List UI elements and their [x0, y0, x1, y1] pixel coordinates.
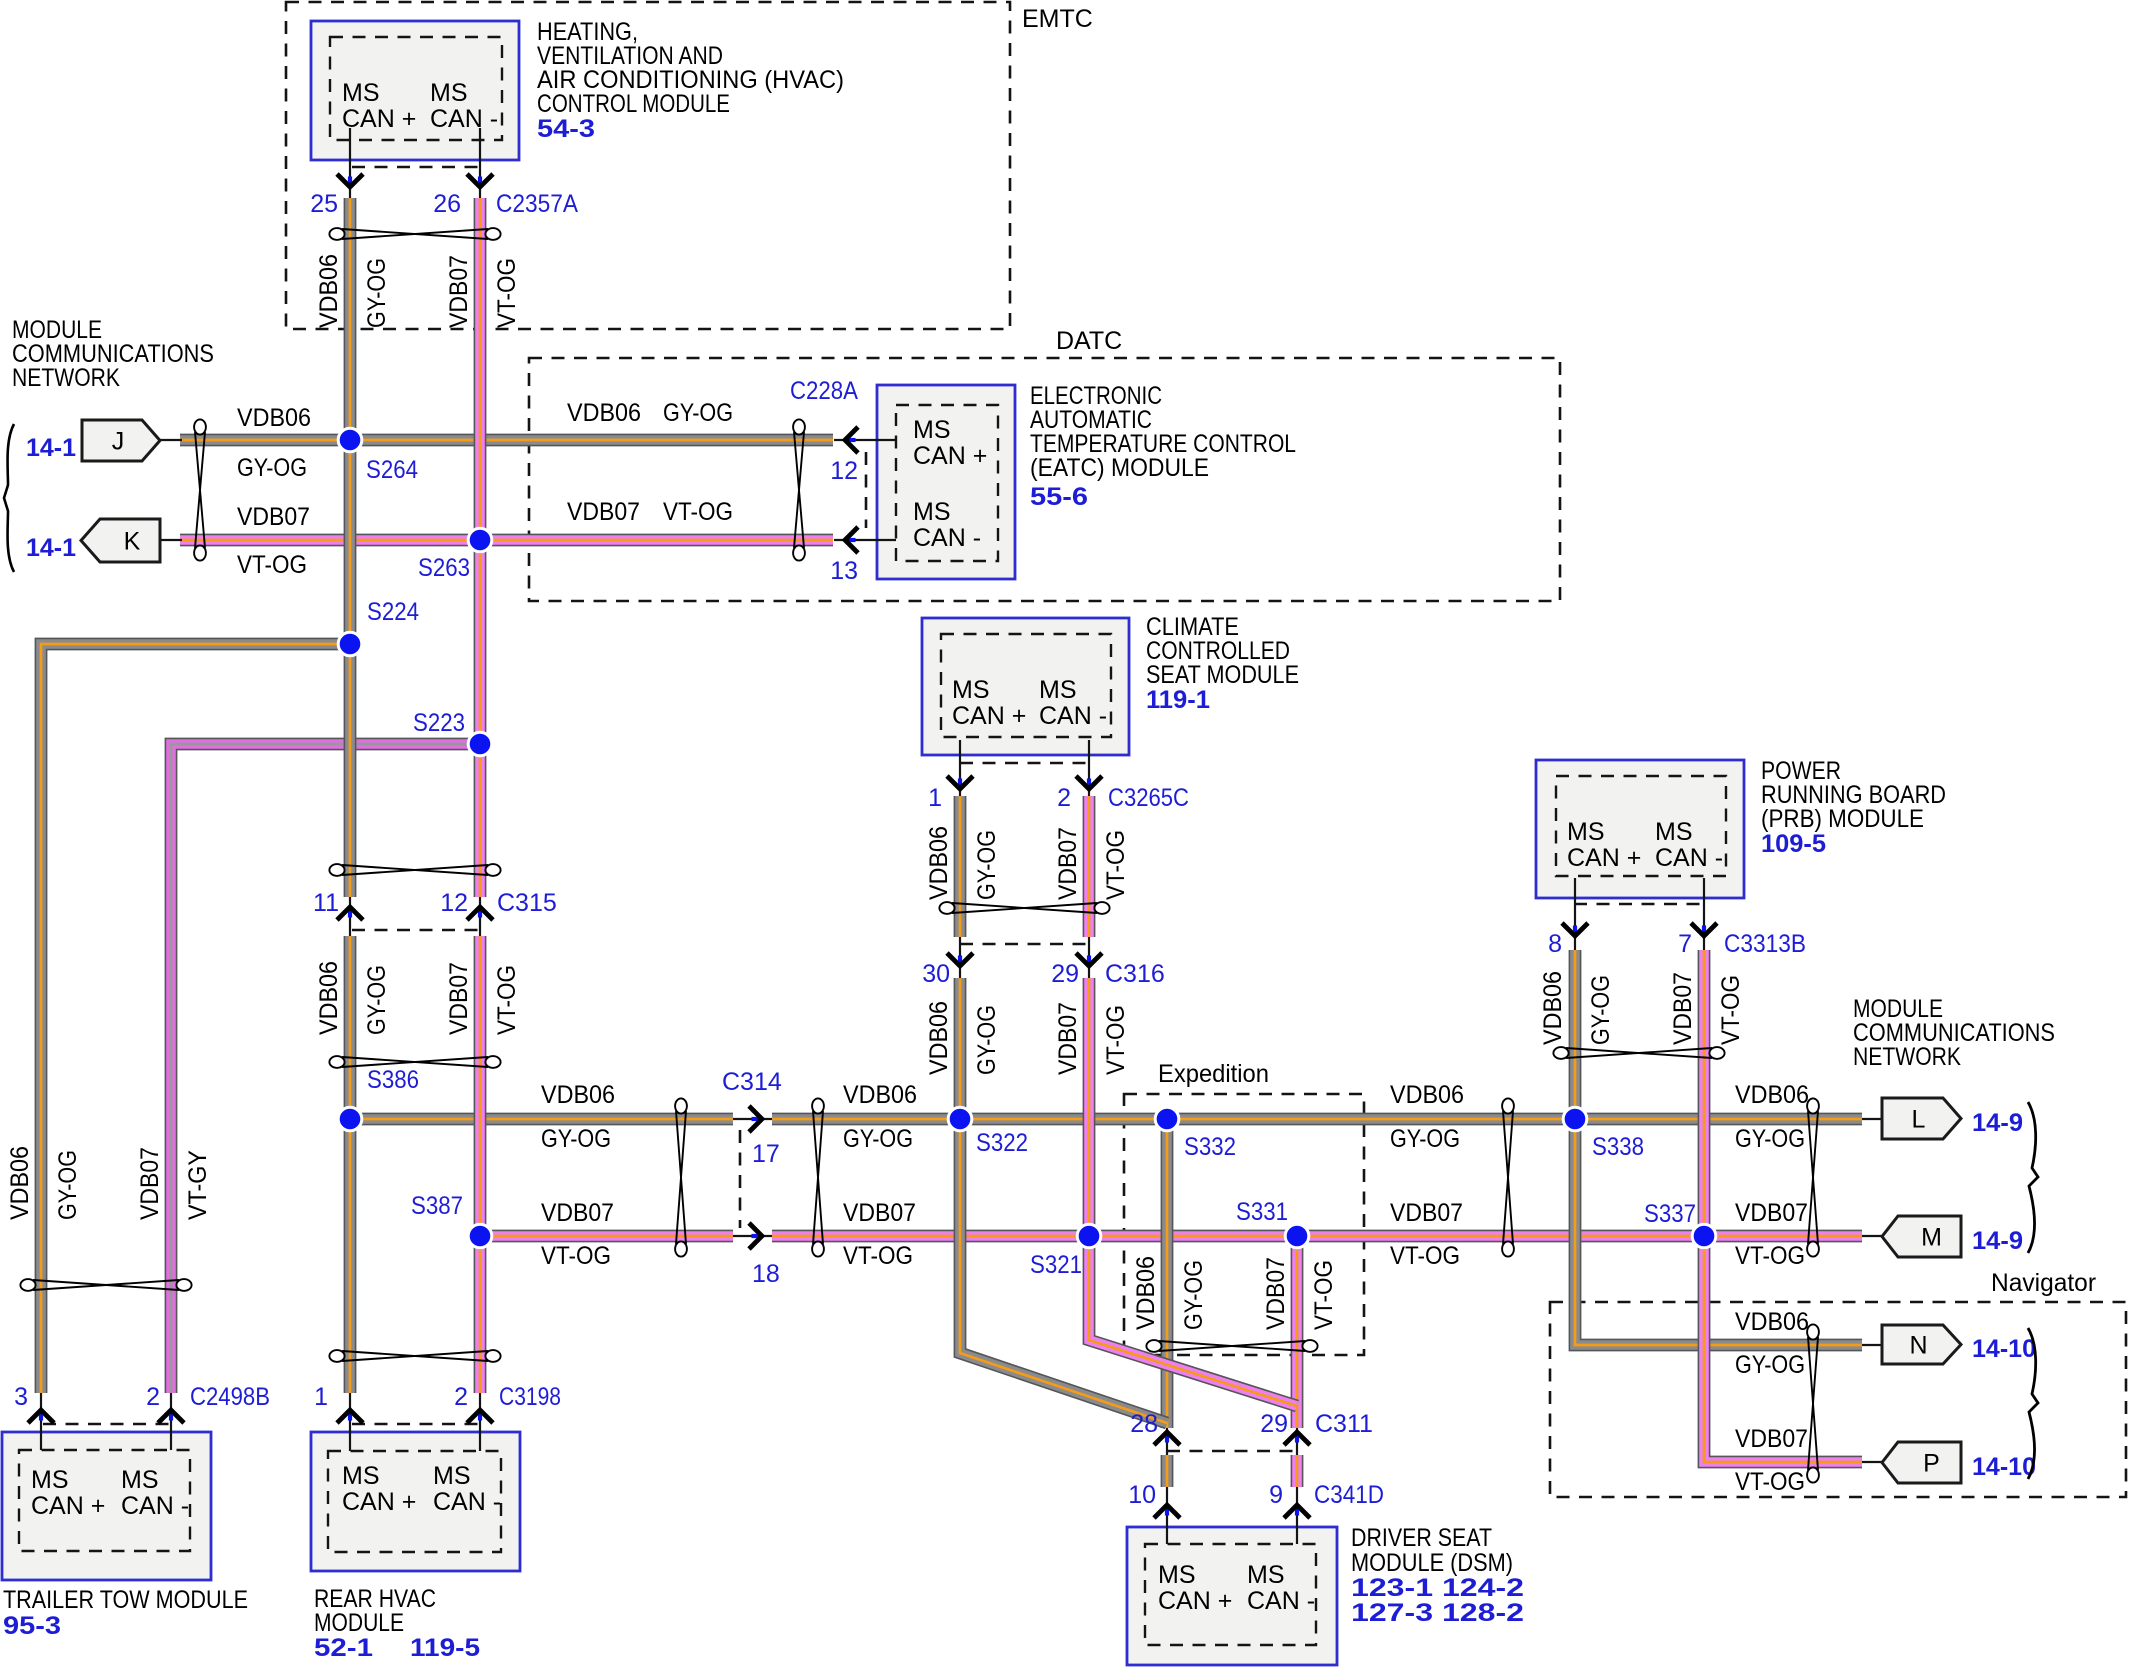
connector C3313B pin 7 — [1703, 878, 1705, 950]
svg-text:VDB06: VDB06 — [1132, 1256, 1160, 1330]
svg-text:P: P — [1923, 1450, 1940, 1478]
svg-text:VDB07: VDB07 — [541, 1199, 614, 1227]
svg-text:VDB07: VDB07 — [1262, 1257, 1290, 1330]
connector C2357A dashed line — [352, 166, 480, 169]
svg-text:CAN -: CAN - — [1039, 702, 1107, 730]
svg-text:VT-OG: VT-OG — [1735, 1468, 1805, 1496]
svg-text:29: 29 — [1051, 960, 1079, 988]
brace left 14-1 group — [4, 424, 14, 572]
svg-text:K: K — [124, 528, 141, 556]
svg-text:S338: S338 — [1592, 1133, 1644, 1161]
svg-text:25: 25 — [310, 190, 338, 218]
svg-text:CAN -: CAN - — [433, 1488, 501, 1516]
svg-text:12: 12 — [440, 889, 468, 917]
wire VDB06 GY-OG climate seat pin 1 to C316 pin 30 — [954, 796, 967, 937]
connector C316 pin 30 — [959, 937, 961, 978]
connector C228A dashed line — [865, 452, 868, 528]
svg-text:VDB07: VDB07 — [1735, 1425, 1808, 1453]
connector C316 pin 29 — [1088, 937, 1090, 978]
svg-text:MS: MS — [342, 1462, 380, 1490]
wire VDB07 VT-OG bus C314 to M — [772, 1230, 1862, 1243]
svg-text:GY-OG: GY-OG — [1180, 1260, 1208, 1330]
splice S337 — [1692, 1224, 1716, 1248]
svg-text:14-10: 14-10 — [1972, 1335, 2036, 1363]
svg-text:NETWORK: NETWORK — [12, 364, 120, 392]
twisted pair in Expedition box — [1146, 1340, 1317, 1352]
module box: HVAC control module — [311, 21, 519, 160]
svg-text:14-1: 14-1 — [26, 434, 76, 462]
svg-text:S224: S224 — [367, 598, 419, 626]
svg-text:VDB07: VDB07 — [1054, 1002, 1082, 1075]
svg-text:GY-OG: GY-OG — [363, 258, 391, 328]
svg-text:CAN -: CAN - — [430, 105, 498, 133]
wire VDB07 VT-GY S223 to trailer tow pin 2 — [171, 744, 480, 1393]
label module communications network (right) — [1853, 995, 2055, 1071]
splice S386 — [338, 1107, 362, 1131]
connector C311 pin 29 — [1296, 1428, 1298, 1455]
svg-text:CAN -: CAN - — [1247, 1587, 1315, 1615]
svg-text:C315: C315 — [497, 889, 557, 917]
svg-text:GY-OG: GY-OG — [54, 1150, 82, 1220]
connector C341D pin 9 — [1296, 1487, 1298, 1544]
svg-text:VT-OG: VT-OG — [237, 551, 307, 579]
svg-text:VT-OG: VT-OG — [663, 498, 733, 526]
svg-text:VDB06: VDB06 — [925, 826, 953, 900]
svg-text:11: 11 — [313, 889, 339, 917]
svg-text:VDB06: VDB06 — [1735, 1081, 1809, 1109]
off-page connector L to 14-9 — [1862, 1118, 1884, 1120]
module box: Trailer tow module — [2, 1432, 211, 1580]
connector C315 dashed line — [352, 929, 480, 932]
twisted pair on buses left of S338 — [1502, 1098, 1514, 1256]
label driver seat module caption — [1351, 1524, 1524, 1627]
svg-text:MS: MS — [1247, 1561, 1285, 1589]
twisted pair above C315 — [329, 864, 500, 876]
module box: Rear HVAC module — [311, 1432, 520, 1571]
svg-text:VT-OG: VT-OG — [1390, 1242, 1460, 1270]
svg-text:127-3 128-2: 127-3 128-2 — [1351, 1599, 1524, 1627]
svg-text:2: 2 — [146, 1383, 160, 1411]
wire VDB07 VT-OG C316 to S321 — [1083, 978, 1096, 1236]
wire VDB06 GY-OG bus C314 to L — [772, 1113, 1862, 1126]
svg-text:119-5: 119-5 — [410, 1634, 480, 1662]
svg-text:VT-GY: VT-GY — [184, 1150, 212, 1220]
svg-text:S387: S387 — [411, 1192, 463, 1220]
svg-text:VT-OG: VT-OG — [1310, 1260, 1338, 1330]
connector C3313B pin 8 — [1574, 878, 1576, 950]
svg-text:CAN -: CAN - — [913, 524, 981, 552]
splice S338 — [1563, 1107, 1587, 1131]
svg-text:SEAT MODULE: SEAT MODULE — [1146, 661, 1299, 689]
connector C2357A pin 26 — [479, 128, 481, 198]
svg-text:12: 12 — [830, 457, 858, 485]
svg-text:GY-OG: GY-OG — [973, 830, 1001, 900]
svg-text:7: 7 — [1678, 930, 1692, 958]
svg-text:17: 17 — [752, 1140, 780, 1168]
dashed group box: DATC — [529, 358, 1560, 601]
splice S331 — [1285, 1224, 1309, 1248]
svg-text:CAN +: CAN + — [31, 1492, 105, 1520]
svg-text:GY-OG: GY-OG — [973, 1005, 1001, 1075]
connector C314 pin 17 — [733, 1118, 772, 1120]
svg-text:VDB07: VDB07 — [237, 503, 310, 531]
connector C314 pin 18 — [733, 1235, 772, 1237]
connector C3198 pin 2 — [479, 1393, 481, 1451]
connector C315 pin 12 — [479, 897, 481, 936]
svg-text:GY-OG: GY-OG — [237, 454, 307, 482]
twisted pair above rear HVAC module — [329, 1350, 500, 1362]
svg-text:VT-OG: VT-OG — [1102, 830, 1130, 900]
splice S223 — [468, 732, 492, 756]
svg-text:J: J — [112, 428, 125, 456]
twisted pair above trailer tow module — [20, 1279, 191, 1291]
svg-text:(EATC) MODULE: (EATC) MODULE — [1030, 454, 1209, 482]
svg-text:VDB07: VDB07 — [567, 498, 640, 526]
svg-text:CAN +: CAN + — [342, 105, 416, 133]
svg-text:GY-OG: GY-OG — [1390, 1125, 1460, 1153]
svg-text:MS: MS — [913, 498, 951, 526]
twisted pair at EATC module — [793, 419, 805, 560]
off-page connector J to 14-1 — [160, 439, 182, 441]
svg-text:8: 8 — [1548, 930, 1562, 958]
module box: Driver seat module — [1127, 1527, 1337, 1665]
splice S264 — [338, 428, 362, 452]
svg-text:EMTC: EMTC — [1022, 5, 1093, 33]
connector C3198 dashed line — [352, 1423, 482, 1426]
svg-text:3: 3 — [14, 1383, 28, 1411]
svg-text:MS: MS — [1655, 818, 1693, 846]
wire VDB07 VT-OG bus S387 to C314 — [480, 1230, 733, 1243]
svg-text:95-3: 95-3 — [3, 1612, 61, 1640]
connector C2498B pin 3 — [40, 1393, 42, 1450]
wire VDB06 GY-OG S322 diagonal to C311 pin 28 — [960, 1119, 1167, 1423]
svg-text:VDB07: VDB07 — [1390, 1199, 1463, 1227]
svg-text:MS: MS — [952, 676, 990, 704]
connector C228A pin 12 — [834, 439, 896, 441]
svg-text:1: 1 — [314, 1383, 328, 1411]
svg-text:14-9: 14-9 — [1972, 1227, 2023, 1255]
wire VDB07 VT-OG PRB pin 7 to S337 — [1698, 950, 1711, 1236]
label HVAC control module caption — [537, 18, 844, 143]
wire VDB06 GY-OG stub C311 to C341D — [1161, 1455, 1174, 1487]
twisted pair below HVAC module — [329, 228, 500, 240]
twisted pair below C315 — [329, 1056, 500, 1068]
splice S332 — [1155, 1107, 1179, 1131]
wire VDB06 GY-OG HVAC pin 25 down to C315 pin 11 — [344, 198, 357, 897]
svg-text:S331: S331 — [1236, 1198, 1288, 1226]
svg-text:VDB07: VDB07 — [843, 1199, 916, 1227]
label module communications network (left) — [12, 316, 214, 392]
svg-text:Navigator: Navigator — [1991, 1269, 2096, 1297]
svg-text:VDB06: VDB06 — [1735, 1308, 1809, 1336]
svg-text:10: 10 — [1128, 1481, 1156, 1509]
dashed group box: Navigator — [1550, 1302, 2126, 1497]
svg-text:GY-OG: GY-OG — [1735, 1351, 1805, 1379]
svg-text:MS: MS — [1158, 1561, 1196, 1589]
svg-text:C316: C316 — [1105, 960, 1165, 988]
svg-text:VDB06: VDB06 — [237, 404, 311, 432]
svg-text:28: 28 — [1130, 1410, 1158, 1438]
svg-text:VT-OG: VT-OG — [493, 965, 521, 1035]
twisted pair before L/M connectors — [1807, 1098, 1819, 1256]
connector C314 dashed line — [739, 1130, 742, 1228]
wire VDB06 GY-OG S338 to N — [1575, 1119, 1862, 1345]
svg-text:29: 29 — [1260, 1410, 1288, 1438]
svg-text:CAN +: CAN + — [1567, 844, 1641, 872]
svg-text:VT-OG: VT-OG — [1102, 1005, 1130, 1075]
wire VDB07 VT-OG S331 to C311 pin 29 — [1291, 1236, 1304, 1428]
svg-text:VDB07: VDB07 — [1669, 972, 1697, 1045]
svg-text:C3198: C3198 — [499, 1383, 561, 1411]
off-page connector K to 14-1 — [160, 539, 182, 541]
svg-text:MS: MS — [121, 1466, 159, 1494]
svg-text:VDB06: VDB06 — [925, 1001, 953, 1075]
svg-text:MS: MS — [1567, 818, 1605, 846]
svg-text:C314: C314 — [722, 1068, 782, 1096]
svg-text:123-1 124-2: 123-1 124-2 — [1351, 1574, 1524, 1602]
svg-text:14-9: 14-9 — [1972, 1109, 2023, 1137]
label PRB module caption — [1761, 757, 1946, 858]
svg-text:MS: MS — [1039, 676, 1077, 704]
twisted pair on buses right of C314 — [812, 1098, 824, 1256]
svg-text:55-6: 55-6 — [1030, 483, 1088, 511]
wire VDB06 GY-OG C315 to rear HVAC pin 1 — [344, 936, 357, 1393]
off-page connector P to 14-10 — [1862, 1461, 1884, 1463]
connector C3265C pin 2 — [1088, 740, 1090, 796]
svg-text:C341D: C341D — [1314, 1481, 1384, 1509]
svg-text:S337: S337 — [1644, 1200, 1696, 1228]
svg-text:M: M — [1921, 1224, 1942, 1252]
svg-text:MODULE: MODULE — [314, 1609, 404, 1637]
svg-text:GY-OG: GY-OG — [663, 399, 733, 427]
svg-text:30: 30 — [922, 960, 950, 988]
svg-text:VDB07: VDB07 — [1054, 827, 1082, 900]
dashed group box: Expedition — [1124, 1094, 1364, 1355]
twisted pair on buses left of C314 — [675, 1098, 687, 1256]
svg-text:52-1: 52-1 — [314, 1634, 373, 1662]
dashed group box: EMTC — [286, 2, 1010, 329]
svg-text:L: L — [1912, 1106, 1926, 1134]
svg-text:S264: S264 — [366, 456, 418, 484]
connector C3313B dashed line — [1574, 903, 1704, 906]
svg-text:C2498B: C2498B — [190, 1383, 270, 1411]
svg-text:Expedition: Expedition — [1158, 1060, 1269, 1088]
svg-text:GY-OG: GY-OG — [541, 1125, 611, 1153]
svg-text:18: 18 — [752, 1260, 780, 1288]
svg-text:CAN -: CAN - — [1655, 844, 1723, 872]
svg-text:C3265C: C3265C — [1108, 784, 1189, 812]
svg-text:C3313B: C3313B — [1724, 930, 1806, 958]
wire VDB06 GY-OG from J to EATC pin 12 — [180, 434, 833, 447]
svg-text:TRAILER TOW MODULE: TRAILER TOW MODULE — [3, 1586, 248, 1614]
svg-text:DATC: DATC — [1056, 327, 1122, 355]
svg-text:VDB06: VDB06 — [1390, 1081, 1464, 1109]
brace right 14-10 group — [2028, 1328, 2038, 1479]
svg-text:CAN +: CAN + — [342, 1488, 416, 1516]
svg-text:NETWORK: NETWORK — [1853, 1043, 1961, 1071]
connector C311 dashed line — [1167, 1450, 1297, 1453]
connector C3265C dashed line — [960, 762, 1089, 765]
svg-text:VT-OG: VT-OG — [1717, 975, 1745, 1045]
svg-text:MS: MS — [913, 416, 951, 444]
connector C341D pin 10 — [1166, 1487, 1168, 1544]
svg-text:GY-OG: GY-OG — [1587, 975, 1615, 1045]
svg-text:26: 26 — [433, 190, 461, 218]
connector C2357A pin 25 — [349, 128, 351, 198]
svg-text:13: 13 — [830, 557, 858, 585]
svg-text:9: 9 — [1269, 1481, 1283, 1509]
svg-text:119-1: 119-1 — [1146, 686, 1210, 714]
off-page connector M to 14-9 — [1862, 1235, 1884, 1237]
svg-text:VDB06: VDB06 — [6, 1146, 34, 1220]
module box: PRB module — [1536, 760, 1744, 898]
wire VDB07 VT-OG from K to EATC pin 13 — [180, 534, 833, 547]
splice S322 — [948, 1107, 972, 1131]
svg-text:VDB06: VDB06 — [567, 399, 641, 427]
wire VDB07 VT-OG stub C311 to C341D — [1291, 1455, 1304, 1487]
wire VDB07 VT-OG S337 to P — [1704, 1236, 1862, 1462]
connector C228A pin 13 — [834, 539, 896, 541]
splice S263 — [468, 528, 492, 552]
svg-text:VT-OG: VT-OG — [493, 258, 521, 328]
svg-text:C311: C311 — [1315, 1410, 1373, 1438]
svg-text:S386: S386 — [367, 1066, 419, 1094]
svg-text:DRIVER SEAT: DRIVER SEAT — [1351, 1524, 1492, 1552]
svg-text:(PRB) MODULE: (PRB) MODULE — [1761, 805, 1924, 833]
svg-text:CONTROL MODULE: CONTROL MODULE — [537, 90, 730, 118]
svg-text:VDB07: VDB07 — [1735, 1199, 1808, 1227]
svg-text:N: N — [1909, 1332, 1927, 1360]
svg-text:CAN +: CAN + — [913, 442, 987, 470]
connector C311 pin 28 — [1166, 1428, 1168, 1455]
label EATC module caption — [1030, 382, 1296, 511]
svg-text:GY-OG: GY-OG — [843, 1125, 913, 1153]
svg-text:VDB06: VDB06 — [843, 1081, 917, 1109]
svg-text:MS: MS — [430, 79, 468, 107]
wire VDB07 VT-OG HVAC pin 26 down to C315 pin 12 — [474, 198, 487, 897]
svg-text:VDB06: VDB06 — [315, 254, 343, 328]
svg-text:S332: S332 — [1184, 1133, 1236, 1161]
splice S321 — [1077, 1224, 1101, 1248]
svg-text:MODULE (DSM): MODULE (DSM) — [1351, 1549, 1513, 1577]
splice S224 — [338, 632, 362, 656]
twisted pair below climate seat module — [939, 902, 1109, 914]
svg-text:109-5: 109-5 — [1761, 830, 1826, 858]
svg-text:2: 2 — [1057, 784, 1071, 812]
svg-text:C2357A: C2357A — [496, 190, 578, 218]
splice S387 — [468, 1224, 492, 1248]
connector C2498B pin 2 — [170, 1393, 172, 1450]
wire VDB06 GY-OG C316 to S322 — [954, 978, 967, 1119]
svg-text:VDB06: VDB06 — [1539, 971, 1567, 1045]
label climate controlled seat module caption — [1146, 613, 1299, 714]
label trailer tow module caption — [3, 1586, 248, 1640]
svg-text:VT-OG: VT-OG — [541, 1242, 611, 1270]
svg-text:C228A: C228A — [790, 377, 858, 405]
module box: EATC module — [877, 385, 1015, 579]
svg-text:CAN +: CAN + — [952, 702, 1026, 730]
wire VDB07 VT-OG climate seat pin 2 to C316 pin 29 — [1083, 796, 1096, 937]
svg-text:54-3: 54-3 — [537, 115, 595, 143]
svg-text:VT-OG: VT-OG — [843, 1242, 913, 1270]
svg-text:14-10: 14-10 — [1972, 1453, 2036, 1481]
connector C3265C pin 1 — [959, 740, 961, 796]
svg-text:MS: MS — [433, 1462, 471, 1490]
connector C3198 pin 1 — [349, 1393, 351, 1451]
wire VDB07 VT-OG S321 diagonal to C311 pin 29 — [1089, 1236, 1297, 1406]
svg-text:CAN +: CAN + — [1158, 1587, 1232, 1615]
svg-text:VDB06: VDB06 — [315, 961, 343, 1035]
svg-text:14-1: 14-1 — [26, 534, 76, 562]
svg-text:VDB07: VDB07 — [445, 255, 473, 328]
module box: Climate controlled seat module — [922, 618, 1129, 755]
svg-text:1: 1 — [928, 784, 942, 812]
svg-text:VDB07: VDB07 — [136, 1147, 164, 1220]
svg-text:GY-OG: GY-OG — [1735, 1125, 1805, 1153]
brace right 14-9 group — [2028, 1102, 2038, 1253]
wire VDB06 GY-OG PRB pin 8 to S338 — [1569, 950, 1582, 1119]
svg-text:2: 2 — [454, 1383, 468, 1411]
svg-text:MS: MS — [342, 79, 380, 107]
svg-text:S322: S322 — [976, 1129, 1028, 1157]
twisted pair before N/P connectors — [1807, 1324, 1819, 1482]
svg-text:GY-OG: GY-OG — [363, 965, 391, 1035]
wire VDB06 GY-OG S224 to trailer tow pin 3 — [41, 644, 350, 1393]
svg-text:VDB06: VDB06 — [541, 1081, 615, 1109]
label rear HVAC module caption — [314, 1585, 480, 1662]
twisted pair below PRB module — [1553, 1047, 1724, 1059]
wire VDB07 VT-OG C315 to rear HVAC pin 2 — [474, 936, 487, 1393]
svg-text:S223: S223 — [413, 709, 465, 737]
svg-text:VDB07: VDB07 — [445, 962, 473, 1035]
svg-text:S263: S263 — [418, 554, 470, 582]
svg-text:MS: MS — [31, 1466, 69, 1494]
wire VDB06 GY-OG S332 to C311 pin 28 — [1161, 1119, 1174, 1428]
connector C2498B dashed line — [43, 1423, 173, 1426]
svg-text:S321: S321 — [1030, 1251, 1082, 1279]
connector C316 dashed line — [960, 943, 1089, 946]
svg-text:VT-OG: VT-OG — [1735, 1242, 1805, 1270]
svg-text:CAN -: CAN - — [121, 1492, 189, 1520]
twisted pair on J/K wires — [194, 419, 206, 560]
connector C315 pin 11 — [349, 897, 351, 936]
wire VDB06 GY-OG bus S386 to C314 — [350, 1113, 733, 1126]
off-page connector N to 14-10 — [1862, 1344, 1884, 1346]
